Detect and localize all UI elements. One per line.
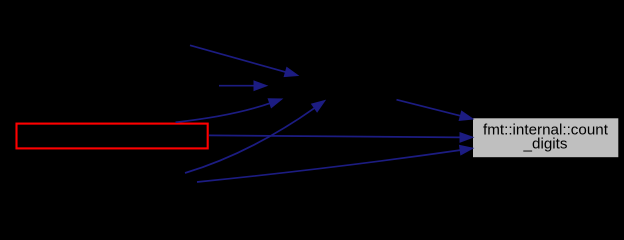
- wire B into hidden node N1 left: [219, 81, 267, 91]
- node (red, truncated) caller box: [17, 124, 208, 149]
- wire H from red box to count_digits: [209, 133, 473, 143]
- wire A into hidden node N1 top: [190, 45, 298, 76]
- wire C from red box top to hidden node N1 bottom: [176, 99, 283, 123]
- node fmt::internal::count_digits (gray): [473, 118, 618, 157]
- wire E from hidden node N1 to count_digits: [397, 100, 474, 121]
- svg-text:_digits: _digits: [523, 135, 568, 152]
- wire G from hidden bottom-left node to hidden node N1 bottom: [185, 101, 325, 174]
- wire F from hidden bottom-left node to count_digits: [197, 145, 473, 182]
